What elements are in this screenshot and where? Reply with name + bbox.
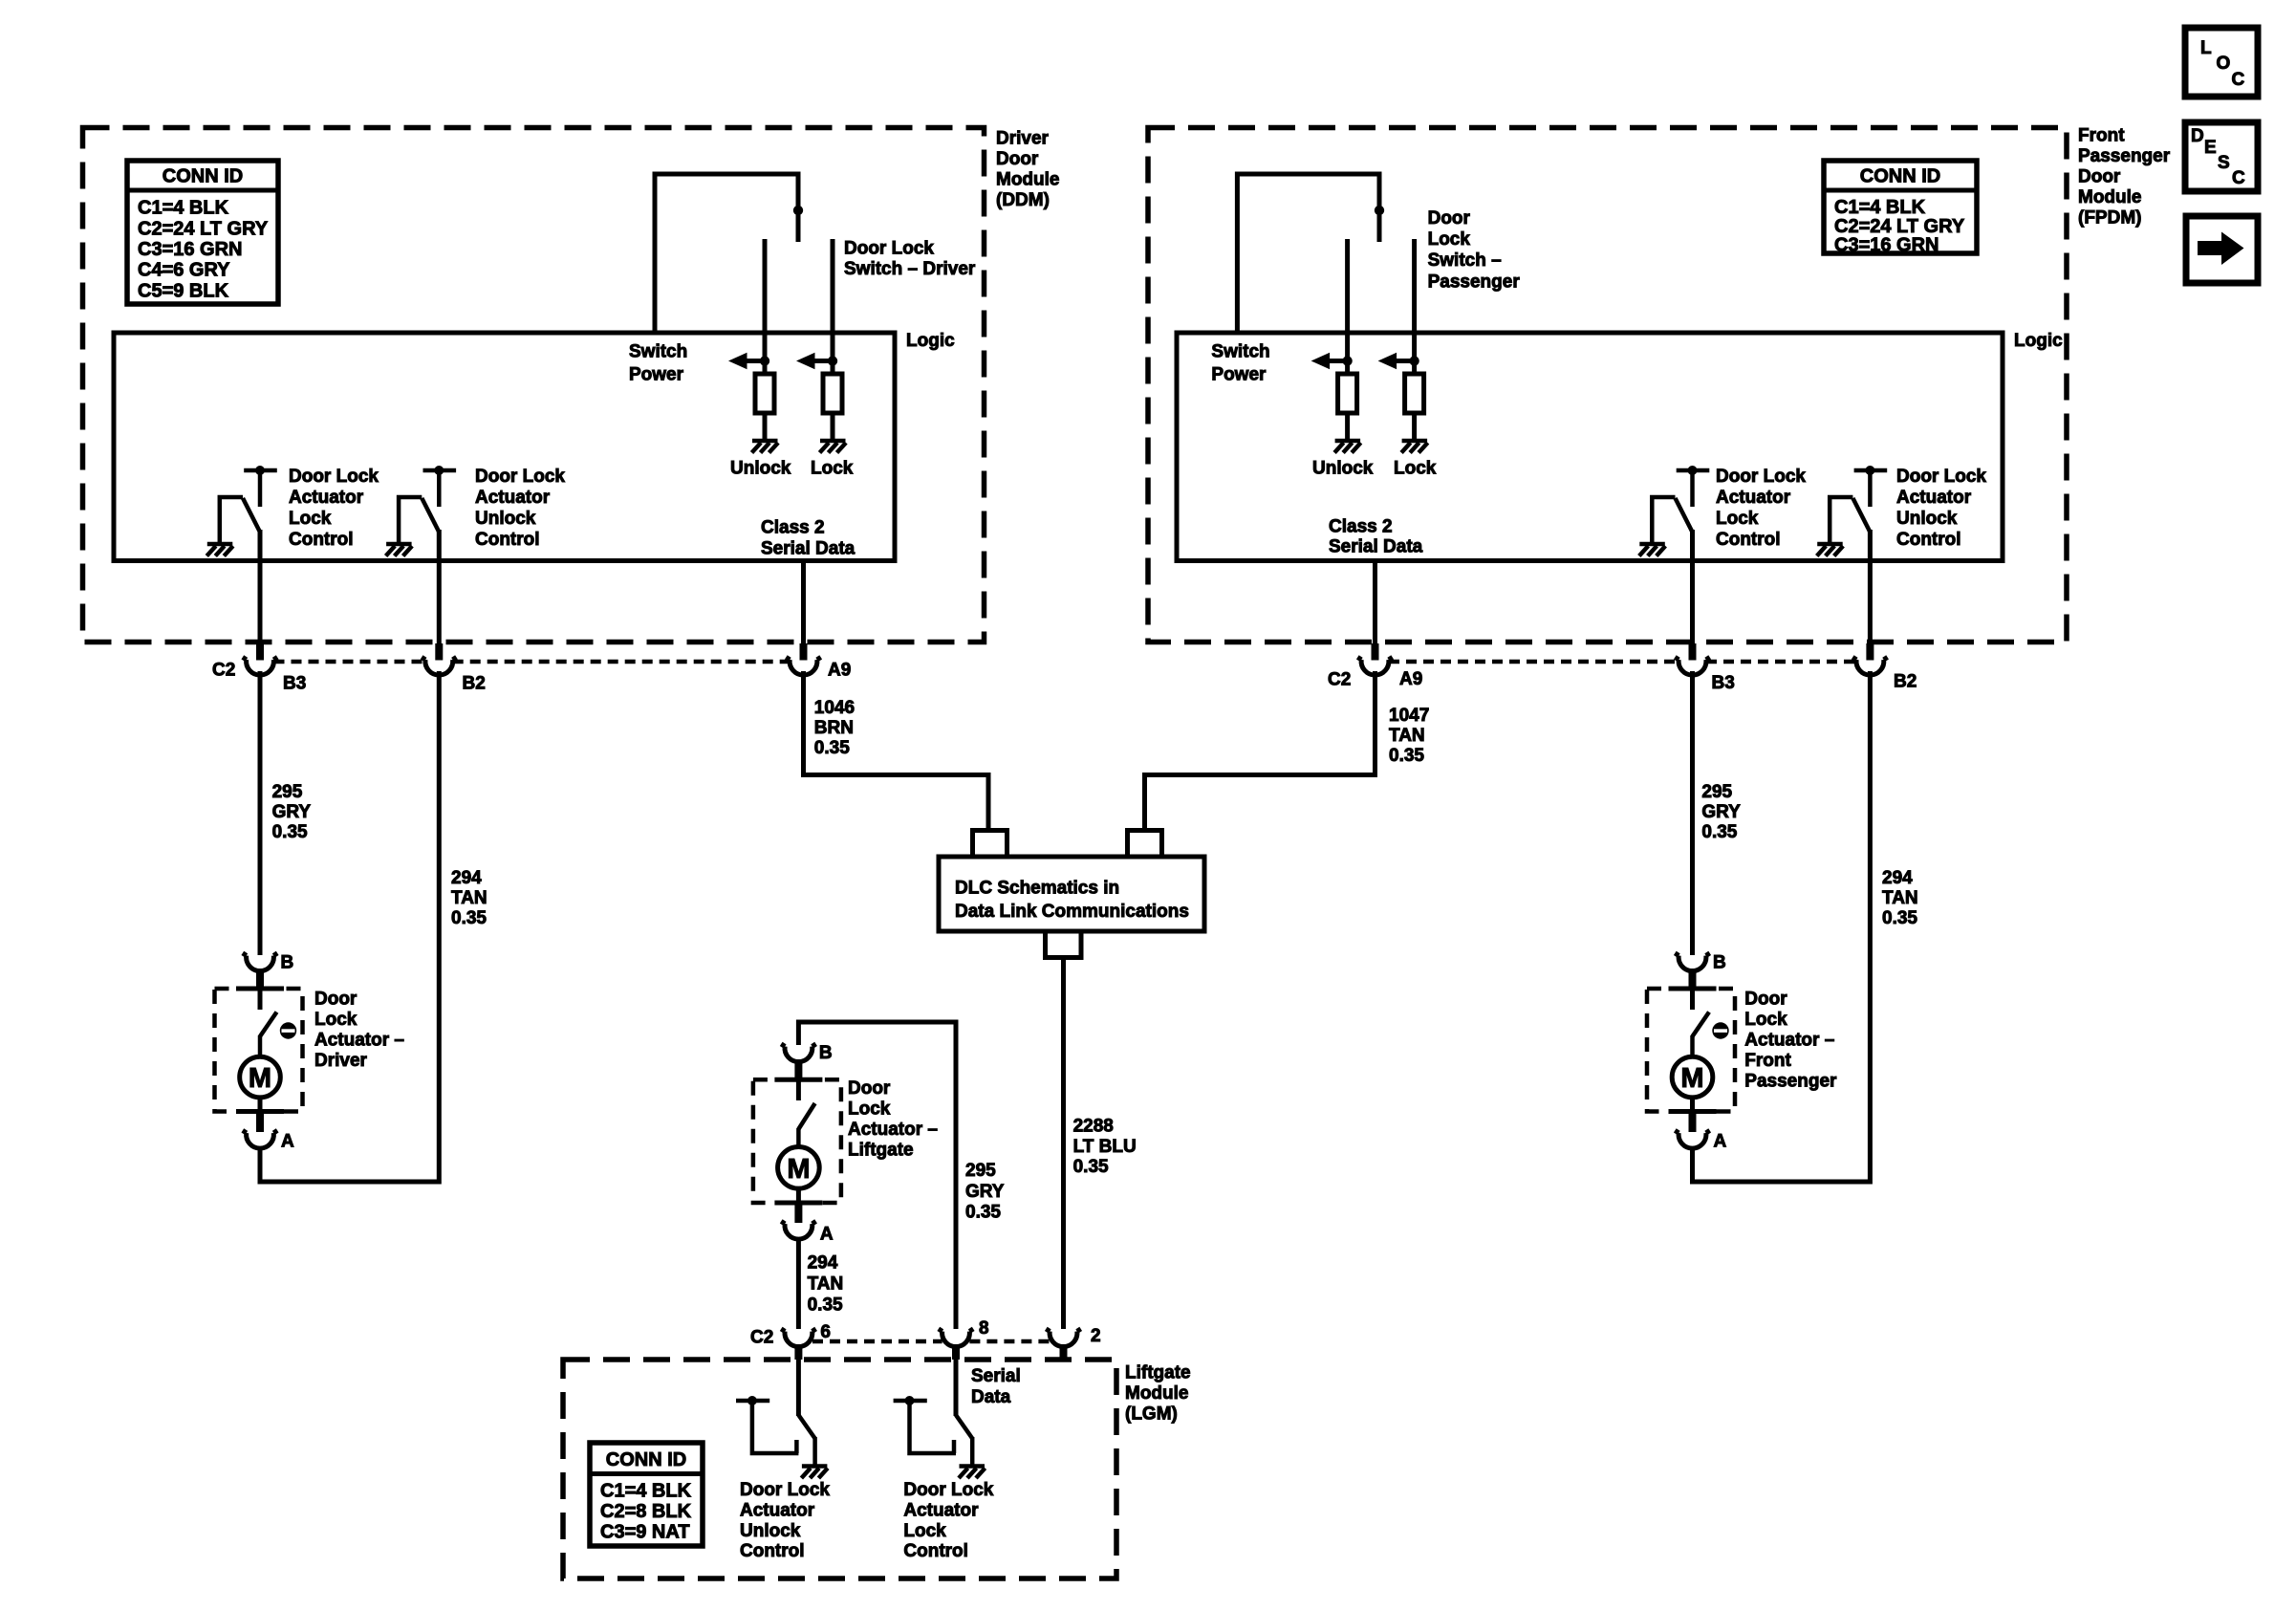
svg-text:Actuator –: Actuator – — [1744, 1031, 1834, 1051]
LGM C2 connector label — [750, 1328, 773, 1348]
svg-text:CONN ID: CONN ID — [1860, 166, 1940, 187]
svg-text:LT BLU: LT BLU — [1073, 1137, 1137, 1157]
LGM pin 6 label — [820, 1322, 831, 1342]
FPDM lock resistor — [1405, 374, 1424, 413]
svg-text:Actuator –: Actuator – — [848, 1120, 938, 1140]
LGM CONN ID table — [590, 1443, 703, 1546]
svg-text:Lock: Lock — [848, 1099, 891, 1120]
svg-text:C2=8 BLK: C2=8 BLK — [600, 1501, 692, 1522]
door lock actuator - driver: pin A connector — [243, 1112, 277, 1149]
svg-text:TAN: TAN — [1882, 888, 1918, 908]
wire 295 GRY to driver actuator — [258, 671, 263, 955]
door lock actuator - front passenger: switch blade — [1693, 989, 1710, 1057]
LGM module label — [1125, 1363, 1191, 1425]
wire label 1046 BRN 0.35 — [814, 698, 855, 758]
DDM class 2 serial data wire — [801, 561, 806, 645]
svg-text:A: A — [820, 1225, 834, 1245]
DDM door lock actuator lock control switch — [206, 466, 276, 644]
svg-text:Door: Door — [848, 1078, 891, 1099]
FPDM logic box — [1177, 333, 2003, 561]
FPDM Logic label — [2014, 331, 2063, 351]
FPDM module label — [2078, 126, 2171, 229]
svg-text:M: M — [249, 1063, 271, 1094]
svg-text:Module: Module — [1125, 1383, 1189, 1404]
FPDM Lock label — [1394, 459, 1437, 479]
LGM door lock actuator unlock control switch — [736, 1360, 828, 1478]
svg-text:Module: Module — [996, 170, 1060, 190]
svg-text:2: 2 — [1091, 1326, 1101, 1346]
DDM door lock actuator unlock control switch — [386, 466, 457, 644]
FPDM lock contact wire — [1412, 239, 1417, 374]
svg-text:TAN: TAN — [1389, 726, 1425, 746]
door lock actuator - driver: pin ticks — [236, 989, 284, 1112]
svg-text:Unlock: Unlock — [1312, 459, 1374, 479]
wire 1046 BRN from DDM A9 — [804, 671, 989, 828]
svg-text:C: C — [2232, 168, 2245, 188]
svg-text:C2: C2 — [212, 661, 235, 681]
DDM switch power label — [629, 342, 687, 385]
svg-text:Liftgate: Liftgate — [848, 1141, 914, 1161]
door lock actuator - liftgate: pin B connector — [781, 1044, 815, 1079]
svg-text:(FPDM): (FPDM) — [2078, 208, 2141, 229]
svg-text:0.35: 0.35 — [272, 822, 308, 842]
DDM CONN ID table — [127, 161, 278, 304]
FPDM lock ground — [1401, 441, 1428, 453]
door lock actuator - front passenger: pin B label — [1713, 953, 1726, 973]
svg-text:Lock: Lock — [1744, 1010, 1787, 1030]
svg-text:C1=4 BLK: C1=4 BLK — [600, 1481, 692, 1502]
svg-text:295: 295 — [965, 1161, 996, 1181]
svg-text:Door Lock: Door Lock — [903, 1480, 993, 1500]
svg-text:0.35: 0.35 — [965, 1203, 1001, 1223]
door lock actuator - driver: pin A label — [281, 1132, 294, 1152]
svg-text:A9: A9 — [828, 661, 851, 681]
svg-text:Door Lock: Door Lock — [1716, 467, 1806, 487]
LGM pin 8 label — [979, 1318, 989, 1339]
svg-text:M: M — [1680, 1063, 1703, 1094]
FPDM C2 connector label — [1328, 670, 1351, 690]
svg-text:Door: Door — [1744, 990, 1787, 1010]
LGM serial data label — [971, 1366, 1021, 1407]
svg-text:C3=9 NAT: C3=9 NAT — [600, 1521, 690, 1542]
DDM module label — [996, 129, 1060, 211]
svg-text:Switch – Driver: Switch – Driver — [844, 259, 976, 279]
svg-text:Module: Module — [2078, 187, 2142, 207]
wire label 295 GRY 0.35 right — [1701, 782, 1741, 842]
forward arrow icon — [2186, 216, 2258, 283]
connector pin B2 — [422, 643, 456, 675]
LGM connector dashed line — [812, 1339, 1050, 1344]
svg-text:O: O — [2217, 54, 2231, 74]
svg-text:CONN ID: CONN ID — [606, 1449, 686, 1470]
DDM lock arrow — [796, 353, 837, 369]
FPDM CONN ID table — [1824, 161, 1977, 256]
FPDM pin A9 label — [1399, 669, 1422, 689]
svg-text:DLC Schematics in: DLC Schematics in — [955, 878, 1119, 898]
svg-text:B: B — [1713, 953, 1726, 973]
DDM unlock resistor to ground wire — [763, 413, 768, 441]
DDM Unlock label — [730, 459, 791, 479]
svg-text:Actuator: Actuator — [1716, 488, 1791, 508]
svg-text:C2: C2 — [750, 1328, 773, 1348]
Driver Door Module dashed box — [83, 128, 985, 642]
svg-text:Passenger: Passenger — [1428, 272, 1521, 292]
svg-text:Control: Control — [740, 1541, 805, 1561]
svg-text:Data: Data — [971, 1387, 1011, 1407]
DDM switch power loop wire — [655, 174, 798, 333]
connector pin B3 — [243, 643, 277, 675]
svg-text:Unlock: Unlock — [740, 1521, 801, 1541]
svg-text:294: 294 — [808, 1253, 838, 1274]
svg-text:D: D — [2191, 126, 2204, 146]
FPDM switch pole junction dot — [1375, 206, 1384, 215]
svg-text:C2: C2 — [1328, 670, 1351, 690]
svg-text:Door Lock: Door Lock — [740, 1480, 830, 1500]
svg-text:0.35: 0.35 — [1701, 822, 1737, 842]
FPDM switch power label — [1211, 342, 1269, 385]
svg-text:Power: Power — [629, 365, 684, 385]
svg-text:0.35: 0.35 — [1389, 746, 1424, 766]
door lock actuator - driver: pin B connector — [243, 953, 277, 989]
passenger actuator label — [1744, 990, 1837, 1092]
svg-text:Serial Data: Serial Data — [761, 539, 856, 559]
svg-text:Door: Door — [2078, 167, 2121, 187]
svg-text:Unlock: Unlock — [475, 509, 536, 529]
svg-text:Door: Door — [1428, 208, 1471, 229]
svg-text:Driver: Driver — [996, 129, 1050, 149]
svg-text:2288: 2288 — [1073, 1117, 1114, 1137]
door lock actuator - driver: pin B label — [281, 953, 294, 973]
svg-text:Control: Control — [475, 530, 540, 550]
door lock actuator - liftgate: pin ticks — [774, 1079, 822, 1203]
svg-text:Control: Control — [903, 1541, 968, 1561]
DDM pin A9 label — [828, 661, 851, 681]
svg-text:295: 295 — [1701, 782, 1732, 802]
door lock actuator - front passenger: pin A label — [1714, 1132, 1727, 1152]
svg-text:C1=4 BLK: C1=4 BLK — [1834, 197, 1926, 218]
DDM lock resistor to ground wire — [831, 413, 835, 441]
wire label 295 GRY 0.35 left — [272, 782, 312, 842]
svg-text:A9: A9 — [1399, 669, 1422, 689]
svg-text:Liftgate: Liftgate — [1125, 1363, 1191, 1383]
svg-text:TAN: TAN — [808, 1274, 844, 1295]
FPDM lock control label — [1716, 467, 1806, 550]
svg-text:Unlock: Unlock — [1896, 509, 1958, 529]
DDM logic box — [114, 333, 895, 561]
door lock actuator - front passenger: pin B connector — [1675, 953, 1709, 989]
connector pin B2 FPDM — [1852, 643, 1887, 675]
connector pin B3 FPDM — [1675, 643, 1709, 675]
door lock actuator - driver: dashed case — [215, 989, 303, 1112]
FPDM unlock resistor to ground wire — [1345, 413, 1350, 441]
svg-text:Door Lock: Door Lock — [475, 467, 565, 487]
FPDM unlock contact wire — [1345, 239, 1350, 374]
wire label 294 TAN 0.35 left — [451, 868, 487, 928]
wire 1047 TAN from FPDM A9 — [1145, 671, 1375, 828]
wire 295 GRY to passenger actuator — [1690, 671, 1695, 955]
svg-text:B: B — [281, 953, 294, 973]
svg-text:Lock: Lock — [811, 459, 854, 479]
svg-text:Actuator: Actuator — [903, 1501, 979, 1521]
svg-text:Lock: Lock — [314, 1010, 357, 1030]
svg-text:GRY: GRY — [272, 802, 312, 822]
door lock actuator - front passenger: motor M — [1672, 1056, 1713, 1111]
svg-text:Actuator –: Actuator – — [314, 1031, 404, 1051]
svg-text:Door Lock: Door Lock — [844, 239, 934, 259]
svg-text:C1=4 BLK: C1=4 BLK — [138, 198, 229, 219]
LGM connector pin 6 — [781, 1329, 815, 1360]
DDM lock contact wire — [831, 239, 835, 374]
LGM door lock actuator lock control switch — [894, 1360, 986, 1478]
DLC left in-line connector bracket — [973, 831, 1007, 857]
door lock actuator - front passenger: dashed case — [1647, 989, 1735, 1112]
Front Passenger Door Module dashed box — [1148, 128, 2067, 642]
svg-text:C: C — [2232, 70, 2245, 90]
door lock actuator - driver: switch blade — [260, 989, 277, 1057]
svg-text:Logic: Logic — [906, 331, 955, 351]
svg-text:Lock: Lock — [1394, 459, 1437, 479]
LGM lock control label — [903, 1480, 993, 1561]
DLC bottom connector bracket — [1046, 931, 1082, 958]
svg-text:E: E — [2204, 138, 2217, 158]
svg-text:294: 294 — [451, 868, 482, 888]
svg-text:Control: Control — [1896, 530, 1961, 550]
svg-text:Driver: Driver — [314, 1051, 368, 1071]
DLC schematics label — [955, 878, 1189, 922]
FPDM lock resistor to ground wire — [1412, 413, 1417, 441]
wire 294 TAN liftgate to pin 6 — [796, 1237, 801, 1329]
DDM C2 connector label — [212, 661, 235, 681]
svg-text:Serial: Serial — [971, 1366, 1021, 1386]
DDM lock ground — [820, 441, 847, 453]
svg-text:Serial Data: Serial Data — [1329, 536, 1423, 556]
DDM unlock contact wire — [763, 239, 768, 374]
svg-text:Actuator: Actuator — [1896, 488, 1972, 508]
svg-text:0.35: 0.35 — [1073, 1157, 1109, 1177]
DDM unlock arrow — [728, 353, 769, 369]
door lock actuator - driver: motor M — [240, 1056, 281, 1111]
DDM unlock control label — [475, 467, 565, 550]
svg-text:Data Link Communications: Data Link Communications — [955, 902, 1189, 922]
FPDM unlock ground — [1334, 441, 1361, 453]
svg-text:Unlock: Unlock — [730, 459, 791, 479]
DDM unlock resistor — [755, 374, 774, 413]
FPDM class 2 serial data wire — [1373, 561, 1377, 645]
svg-text:(DDM): (DDM) — [996, 190, 1050, 210]
DDM pin B2 label — [463, 674, 486, 694]
DDM lock control label — [289, 467, 379, 550]
svg-text:Logic: Logic — [2014, 331, 2063, 351]
svg-text:Control: Control — [1716, 530, 1781, 550]
LGM unlock control label — [740, 1480, 830, 1561]
DDM unlock ground — [752, 441, 779, 453]
svg-text:Actuator: Actuator — [289, 488, 364, 508]
svg-text:Door Lock: Door Lock — [1896, 467, 1986, 487]
svg-text:Door: Door — [996, 149, 1039, 169]
svg-text:Power: Power — [1211, 365, 1267, 385]
wire label 295 GRY 0.35 center — [965, 1161, 1005, 1223]
svg-text:Passenger: Passenger — [1744, 1072, 1837, 1092]
wire 2288 LT BLU serial data — [1061, 958, 1066, 1330]
DLC right in-line connector bracket — [1128, 831, 1162, 857]
FPDM pin B3 label — [1712, 673, 1735, 693]
DDM connector C2 dashed line — [274, 660, 791, 664]
svg-text:Switch –: Switch – — [1428, 250, 1502, 271]
FPDM unlock arrow — [1311, 353, 1353, 369]
svg-text:C5=9 BLK: C5=9 BLK — [138, 280, 229, 301]
DDM switch pole junction dot — [793, 206, 803, 215]
svg-text:A: A — [1714, 1132, 1727, 1152]
svg-text:0.35: 0.35 — [1882, 908, 1917, 928]
connector pin A9 — [786, 643, 820, 675]
svg-text:TAN: TAN — [451, 888, 487, 908]
door lock actuator - liftgate: motor M — [778, 1147, 820, 1204]
svg-text:0.35: 0.35 — [808, 1295, 843, 1315]
svg-text:B: B — [819, 1043, 833, 1063]
svg-text:Lock: Lock — [289, 509, 332, 529]
FPDM lock arrow — [1378, 353, 1419, 369]
connector pin A9 FPDM — [1357, 643, 1392, 675]
svg-text:C2=24 LT GRY: C2=24 LT GRY — [1834, 216, 1965, 237]
svg-text:8: 8 — [979, 1318, 989, 1339]
FPDM door lock switch label — [1428, 208, 1521, 292]
driver actuator label — [314, 990, 404, 1072]
wire 294 TAN return driver actuator — [260, 671, 439, 1182]
svg-text:294: 294 — [1882, 868, 1913, 888]
svg-text:B3: B3 — [1712, 673, 1735, 693]
svg-text:Door Lock: Door Lock — [289, 467, 379, 487]
wire label 2288 LT BLU 0.35 — [1073, 1117, 1137, 1178]
wire label 294 TAN 0.35 right — [1882, 868, 1918, 928]
DDM Lock label — [811, 459, 854, 479]
DDM class 2 serial data label — [761, 518, 856, 559]
door lock actuator - driver: position sensor theta — [280, 1022, 296, 1038]
DDM door lock switch label — [844, 239, 976, 280]
FPDM class 2 serial data label — [1329, 516, 1423, 556]
FPDM Unlock label — [1312, 459, 1374, 479]
svg-text:Front: Front — [1744, 1051, 1791, 1071]
svg-text:Passenger: Passenger — [2078, 146, 2171, 166]
svg-text:C3=16 GRN: C3=16 GRN — [1834, 235, 1939, 256]
FPDM door lock actuator lock control switch — [1639, 466, 1710, 644]
svg-text:Class 2: Class 2 — [761, 518, 825, 538]
door lock actuator - liftgate: dashed case — [753, 1079, 841, 1203]
wire label 294 TAN 0.35 center — [808, 1253, 844, 1316]
svg-text:CONN ID: CONN ID — [162, 166, 243, 187]
svg-text:B3: B3 — [283, 674, 306, 694]
svg-text:Switch: Switch — [629, 342, 687, 362]
door lock actuator - front passenger: pin A connector — [1675, 1112, 1709, 1149]
door lock actuator - liftgate: switch blade — [798, 1079, 814, 1147]
wire label 1047 TAN 0.35 — [1389, 706, 1429, 766]
LGM connector pin 2 — [1046, 1329, 1080, 1360]
svg-text:M: M — [787, 1154, 810, 1185]
DDM pin B3 label — [283, 674, 306, 694]
door lock actuator - liftgate: pin A connector — [781, 1203, 815, 1239]
svg-text:C4=6 GRY: C4=6 GRY — [138, 260, 230, 281]
FPDM connector C2 dashed line — [1389, 660, 1856, 664]
svg-text:GRY: GRY — [965, 1182, 1005, 1202]
svg-text:Switch: Switch — [1211, 342, 1269, 362]
svg-text:C3=16 GRN: C3=16 GRN — [138, 239, 243, 260]
svg-text:A: A — [281, 1132, 294, 1152]
svg-text:Lock: Lock — [1428, 229, 1471, 250]
svg-text:Actuator: Actuator — [740, 1501, 815, 1521]
svg-text:B2: B2 — [1894, 672, 1917, 692]
Liftgate Module dashed box — [563, 1360, 1116, 1578]
LGM connector pin 8 — [939, 1329, 973, 1360]
FPDM pin B2 label — [1894, 672, 1917, 692]
svg-text:B2: B2 — [463, 674, 486, 694]
FPDM door lock actuator unlock control switch — [1817, 466, 1888, 644]
svg-text:GRY: GRY — [1701, 802, 1741, 822]
svg-text:295: 295 — [272, 782, 303, 802]
wire 295 GRY liftgate loop — [798, 1022, 956, 1329]
svg-text:Control: Control — [289, 530, 354, 550]
svg-text:Lock: Lock — [903, 1521, 946, 1541]
DLC schematics box — [939, 857, 1204, 931]
FPDM unlock control label — [1896, 467, 1986, 550]
FPDM switch power loop wire — [1237, 174, 1379, 333]
door lock actuator - front passenger: pin ticks — [1669, 989, 1717, 1112]
door lock actuator - liftgate: pin B label — [819, 1043, 833, 1063]
DESC icon — [2185, 122, 2258, 191]
svg-text:1046: 1046 — [814, 698, 855, 718]
svg-text:Door: Door — [314, 990, 357, 1010]
svg-text:0.35: 0.35 — [814, 738, 850, 758]
svg-text:S: S — [2218, 153, 2230, 173]
svg-text:1047: 1047 — [1389, 706, 1429, 726]
svg-text:0.35: 0.35 — [451, 908, 487, 928]
DDM lock resistor — [823, 374, 842, 413]
svg-text:Actuator: Actuator — [475, 488, 551, 508]
svg-text:BRN: BRN — [814, 718, 854, 738]
svg-text:L: L — [2200, 38, 2212, 58]
svg-text:Lock: Lock — [1716, 509, 1759, 529]
FPDM unlock resistor — [1338, 374, 1357, 413]
svg-text:(LGM): (LGM) — [1125, 1404, 1178, 1425]
wire 294 TAN return passenger actuator — [1693, 671, 1871, 1182]
svg-text:Front: Front — [2078, 126, 2125, 146]
svg-text:6: 6 — [820, 1322, 831, 1342]
door lock actuator - front passenger: position sensor theta — [1712, 1022, 1728, 1038]
DDM Logic label — [906, 331, 955, 351]
liftgate actuator label — [848, 1078, 938, 1161]
LGM pin 2 label — [1091, 1326, 1101, 1346]
door lock actuator - liftgate: pin A label — [820, 1225, 834, 1245]
svg-text:C2=24 LT GRY: C2=24 LT GRY — [138, 218, 269, 239]
svg-text:Class 2: Class 2 — [1329, 516, 1393, 536]
LOC icon — [2185, 28, 2258, 97]
